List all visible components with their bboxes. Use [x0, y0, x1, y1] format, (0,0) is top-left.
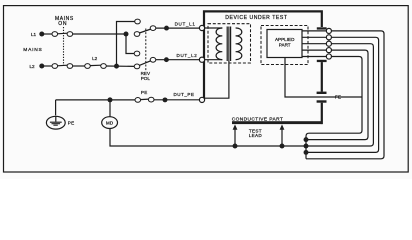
wire AP5 loop innermost [306, 57, 362, 159]
wire AP4 loop [306, 50, 368, 140]
svg-text:DUT_PE: DUT_PE [173, 92, 194, 97]
wire MD to test-lead bus [110, 128, 306, 146]
node L1 terminal [39, 32, 44, 37]
node test lead dot left [233, 144, 238, 149]
wire DUT_PE [154, 99, 200, 101]
svg-text:PE: PE [141, 90, 148, 95]
winding T1 primary [216, 28, 222, 60]
terminal DUT_L1 [199, 25, 204, 30]
node PE junction (MD tap) [108, 97, 113, 102]
contact upper straight (from L1) [134, 32, 140, 37]
applied part dashed box [261, 26, 308, 65]
wire DUT_L2 [156, 59, 200, 61]
lead AP1 [302, 30, 326, 32]
wire PE drop to earth symbol [55, 100, 57, 116]
contact lower throw (from L1) [134, 51, 140, 56]
capacitor FE bottom plate [317, 100, 327, 102]
lead AP3 [302, 43, 326, 45]
wire PE from earth corner to switch [56, 99, 136, 101]
svg-text:PART: PART [279, 42, 291, 47]
wire crossover L2 to upper contact [117, 22, 136, 67]
wire AP2 loop [306, 37, 379, 152]
contact upper throw (from L2) [135, 19, 141, 24]
conductive part bar [232, 121, 323, 124]
meter MD [102, 117, 118, 129]
earth symbol PE [46, 116, 65, 129]
node L2 crossover junction [114, 64, 119, 69]
border frame [4, 6, 409, 172]
winding T1 secondary [236, 28, 242, 60]
wire L2 between switches [72, 65, 85, 67]
core T1 [227, 27, 230, 62]
svg-text:ON: ON [58, 21, 67, 27]
probe arrow right [280, 124, 285, 146]
switch S1b MAINS ON pole L2 [52, 64, 73, 69]
node L2 terminal [39, 64, 44, 69]
label REV POL [141, 71, 151, 81]
wire AP1 loop outermost [306, 31, 384, 159]
wire DUT_L1 [156, 27, 200, 29]
svg-text:L2: L2 [92, 56, 98, 61]
svg-text:MAINS: MAINS [23, 47, 42, 53]
terminal AP2 [326, 35, 331, 40]
transformer T1 dashed box [208, 24, 251, 63]
pole S3b REV POL lower [150, 57, 156, 62]
svg-text:L1: L1 [31, 32, 37, 37]
node AP bus dot 2 [304, 144, 309, 149]
node DUT_L2 dot [164, 57, 169, 62]
node AP bus dot 3 [304, 150, 309, 155]
link dashed REV POL gang [145, 29, 147, 71]
terminal DUT_L2 [199, 57, 204, 62]
svg-text:LEAD: LEAD [249, 133, 263, 138]
wire L2 to primary [205, 59, 223, 61]
svg-text:MD: MD [106, 120, 114, 125]
wire L2 input to switch [42, 65, 53, 67]
wire FE upper stem [321, 62, 323, 92]
probe arrow left [233, 124, 238, 146]
wire core to PE [205, 61, 229, 98]
wire L1 to primary [205, 27, 223, 29]
contact lower straight (from L2) [134, 64, 140, 69]
plate over applied part leads [317, 27, 327, 29]
blade S3b REV POL lower [139, 61, 151, 66]
DUT terminal bus thick [204, 11, 322, 100]
svg-text:DEVICE UNDER TEST: DEVICE UNDER TEST [225, 15, 287, 21]
terminal AP3 [326, 41, 331, 46]
svg-text:FE: FE [335, 95, 341, 100]
pole S3a REV POL upper [150, 26, 156, 31]
label TEST LEAD [249, 128, 263, 138]
wire L1 input to switch [42, 33, 53, 35]
applied part box U2 [267, 30, 302, 58]
lead AP2 [302, 36, 326, 38]
link dotted MAINS ON gang [63, 27, 65, 66]
lead AP5 [302, 56, 326, 58]
terminal AP5 [326, 54, 331, 59]
node DUT_PE dot [163, 97, 168, 102]
wire MD upper [109, 100, 111, 117]
svg-text:POL: POL [141, 76, 151, 81]
svg-text:PE: PE [68, 121, 75, 126]
svg-text:CONDUCTIVE PART: CONDUCTIVE PART [232, 116, 283, 122]
switch S4 PE open [135, 97, 154, 102]
wire crossover L1 to lower contact [126, 34, 135, 54]
svg-text:DUT_L1: DUT_L1 [175, 21, 196, 26]
svg-text:APPLIED: APPLIED [275, 37, 295, 42]
label MAINS ON [55, 16, 74, 27]
terminal AP4 [326, 48, 331, 53]
svg-text:L2: L2 [29, 64, 35, 69]
lead AP4 [302, 49, 326, 51]
node test lead dot right [280, 144, 285, 149]
wire applied part bottom to loop [285, 58, 362, 98]
terminal DUT_PE [199, 97, 204, 102]
node AP bus dot 1 [304, 137, 309, 142]
terminal AP1 [326, 28, 331, 33]
node DUT_L1 dot [164, 26, 169, 31]
switch S1a MAINS ON pole L1 [52, 32, 73, 37]
plate under applied part leads [317, 60, 327, 62]
blade S3a REV POL upper [139, 29, 151, 33]
wire L2 to crossover node [106, 65, 135, 67]
wire FE lower stem [321, 103, 323, 124]
capacitor FE top plate [317, 92, 327, 94]
switch S2 L2 open [85, 64, 107, 69]
svg-text:DUT_L2: DUT_L2 [177, 53, 198, 58]
node L1 branch junction [124, 32, 129, 37]
wire L1 switch to node A [72, 33, 126, 35]
wire AP3 loop [306, 44, 373, 146]
label APPLIED PART [275, 37, 295, 48]
